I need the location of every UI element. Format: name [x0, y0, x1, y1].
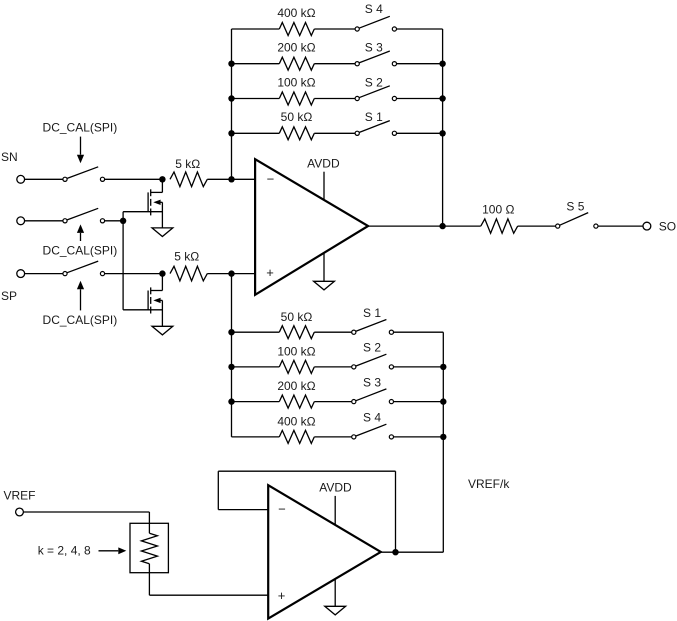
wire AVDD U2	[334, 496, 336, 525]
svg-text:S 1: S 1	[363, 306, 381, 320]
wire 5k to left bus	[207, 178, 231, 180]
switch S 2 bottom	[352, 365, 356, 369]
wire VREF to divider	[23, 511, 149, 513]
terminal SN	[17, 175, 25, 183]
wire gate bus vertical	[122, 212, 124, 310]
transistor Q1 drain lead	[161, 179, 163, 192]
wire ladder row S 2 left (bottom)	[232, 366, 280, 368]
resistor 100 ohm	[481, 219, 518, 233]
svg-text:DC_CAL(SPI): DC_CAL(SPI)	[43, 120, 118, 134]
resistor 5k lower	[170, 266, 207, 281]
svg-text:200 kΩ: 200 kΩ	[277, 41, 315, 55]
terminal middle (cal input)	[17, 217, 25, 225]
wire switch to right bus	[397, 98, 443, 100]
svg-text:S 5: S 5	[566, 200, 584, 214]
svg-text:S 2: S 2	[365, 75, 383, 89]
arrow k label	[99, 550, 119, 552]
switch S 1	[355, 131, 359, 135]
svg-text:50 kΩ: 50 kΩ	[281, 310, 313, 324]
node SN/drain junction	[159, 176, 165, 182]
wire U2 ground stem	[334, 579, 336, 607]
node bottom ladder left bus junction	[228, 364, 234, 370]
bottom ladder left bus wire	[231, 274, 233, 437]
wire ladder row S 3 left	[232, 63, 280, 65]
wire 5k to left bus	[207, 273, 231, 275]
wire SP switch to node	[105, 273, 163, 275]
svg-text:AVDD: AVDD	[319, 481, 352, 495]
switch DC_CAL SP	[63, 272, 67, 276]
wire op-amp output	[368, 225, 481, 227]
transistor Q2 channel	[150, 287, 152, 294]
top ladder right bus wire	[442, 29, 444, 226]
wire row to switch	[314, 366, 351, 368]
wire U2 feedback right vertical	[395, 471, 397, 552]
wire SN terminal to switch	[25, 178, 63, 180]
resistor 100 kohm bottom ladder	[279, 360, 314, 373]
resistor k zigzag	[148, 523, 150, 533]
arrow DC_CAL bottom	[80, 289, 82, 310]
wire SN switch to node	[105, 178, 163, 180]
wire row to switch	[314, 436, 351, 438]
wire ladder row S 1 left	[232, 132, 280, 134]
node: top ladder left bus junction	[228, 61, 234, 67]
svg-text:AVDD: AVDD	[307, 157, 340, 171]
arrow DC_CAL top	[80, 137, 82, 155]
svg-text:5 kΩ: 5 kΩ	[174, 250, 199, 264]
op-amp U2	[268, 485, 381, 618]
svg-text:SP: SP	[1, 289, 17, 303]
node bottom ladder left bus junction	[228, 398, 234, 404]
svg-text:−: −	[267, 172, 275, 187]
switch DC_CAL SN	[63, 177, 67, 181]
wire U2 feedback left vertical	[217, 471, 219, 509]
wire middle switch to gate node	[105, 220, 124, 222]
wire 100ohm to S5	[518, 225, 556, 227]
wire Q1 source down	[161, 202, 163, 228]
node: top ladder right bus junction	[439, 61, 445, 67]
wire bus to op-amp minus	[232, 178, 256, 180]
resistor 200 kohm bottom ladder	[279, 395, 314, 408]
svg-text:−: −	[278, 501, 286, 516]
wire switch to right bus	[397, 28, 443, 30]
wire switch to right bus	[394, 436, 444, 438]
wire row to switch	[314, 63, 355, 65]
svg-text:+: +	[266, 265, 274, 280]
transistor Q2 body arrow	[157, 299, 163, 301]
svg-text:SO: SO	[659, 219, 676, 233]
svg-text:400 kΩ: 400 kΩ	[277, 6, 315, 20]
node plus-input junction	[228, 270, 234, 276]
svg-text:400 kΩ: 400 kΩ	[277, 415, 315, 429]
node SP/drain junction	[159, 270, 165, 276]
wire ladder row S 2 left	[232, 98, 280, 100]
transistor Q1 channel	[150, 189, 152, 196]
wire row to switch	[314, 28, 355, 30]
wire switch to right bus	[397, 132, 443, 134]
node: top ladder right bus junction	[439, 95, 445, 101]
wire U2 feedback top	[218, 470, 395, 472]
svg-text:S 2: S 2	[363, 341, 381, 355]
node output/right-bus junction	[439, 223, 445, 229]
switch S 3 bottom	[352, 400, 356, 404]
resistor 400 kohm top ladder	[279, 23, 314, 36]
top ladder left bus wire	[231, 29, 233, 179]
svg-text:S 3: S 3	[365, 41, 383, 55]
svg-text:DC_CAL(SPI): DC_CAL(SPI)	[43, 244, 118, 258]
wire ladder row S 4 left	[232, 28, 280, 30]
wire ladder row S 1 left (bottom)	[232, 331, 280, 333]
svg-text:S 4: S 4	[365, 2, 383, 16]
transistor Q2 drain lead	[161, 274, 163, 291]
node U2 output junction	[392, 549, 398, 555]
switch S 1 bottom	[352, 330, 356, 334]
switch S 4 bottom	[352, 435, 356, 439]
svg-text:S 3: S 3	[363, 375, 381, 389]
ground Q1	[152, 228, 173, 237]
wire divider to op-amp plus	[149, 594, 268, 596]
svg-text:100 kΩ: 100 kΩ	[277, 75, 315, 89]
svg-text:S 1: S 1	[365, 110, 383, 124]
bottom ladder right bus wire	[442, 332, 444, 552]
resistor 100 kohm top ladder	[279, 92, 314, 105]
wire ladder row S 3 left (bottom)	[232, 401, 280, 403]
transistor Q1 body arrow	[157, 201, 163, 203]
terminal SP	[17, 270, 25, 278]
wire switch to right bus	[394, 331, 444, 333]
switch S 3	[355, 62, 359, 66]
svg-text:SN: SN	[1, 150, 18, 164]
node bottom ladder right bus junction	[440, 364, 446, 370]
wire switch to right bus	[397, 63, 443, 65]
ground U2	[325, 606, 346, 615]
wire S5 to SO	[598, 225, 643, 227]
node: top ladder right bus junction	[439, 130, 445, 136]
node bottom ladder right bus junction	[440, 434, 446, 440]
svg-text:VREF: VREF	[4, 489, 36, 503]
op-amp U1	[255, 159, 368, 295]
switch S 4	[355, 27, 359, 31]
wire row to switch	[314, 132, 355, 134]
wire bus to op-amp plus	[232, 273, 256, 275]
node bottom ladder right bus junction	[440, 398, 446, 404]
wire row to switch	[314, 98, 355, 100]
svg-text:100 Ω: 100 Ω	[482, 203, 514, 217]
svg-text:5 kΩ: 5 kΩ	[175, 157, 200, 171]
wire switch to right bus	[394, 366, 444, 368]
ground U1	[314, 281, 335, 290]
transistor Q2 gate plate	[147, 291, 149, 310]
transistor Q1 gate plate	[147, 192, 149, 211]
svg-text:+: +	[278, 588, 286, 603]
wire Q1 gate/source lead	[123, 211, 162, 213]
resistor 200 kohm top ladder	[279, 57, 314, 70]
wire middle terminal to switch	[25, 220, 63, 222]
wire row to switch	[314, 401, 351, 403]
resistor 400 kohm bottom ladder	[279, 430, 314, 443]
terminal SO	[643, 222, 651, 230]
wire SP terminal to switch	[25, 273, 63, 275]
switch DC_CAL middle	[63, 219, 67, 223]
wire U1 ground stem	[323, 253, 325, 281]
resistor 50 kohm top ladder	[279, 127, 314, 140]
svg-text:S 4: S 4	[363, 411, 381, 425]
node minus-input junction	[228, 176, 234, 182]
wire U2 output	[381, 551, 444, 553]
svg-text:DC_CAL(SPI): DC_CAL(SPI)	[43, 313, 118, 327]
wire switch to right bus	[394, 401, 444, 403]
resistor 5k upper	[170, 172, 207, 187]
wire Q2 gate/source lead	[123, 309, 162, 311]
wire Q2 source down	[161, 300, 163, 326]
wire U2 feedback minus	[218, 509, 268, 511]
resistor block k (box)	[130, 523, 168, 572]
node: top ladder left bus junction	[228, 130, 234, 136]
svg-text:200 kΩ: 200 kΩ	[277, 379, 315, 393]
switch S5	[556, 224, 560, 228]
arrow DC_CAL middle	[80, 233, 82, 241]
svg-text:k = 2, 4, 8: k = 2, 4, 8	[38, 543, 91, 557]
wire ladder row S 4 left (bottom)	[232, 436, 280, 438]
resistor 50 kohm bottom ladder	[279, 326, 314, 339]
node bottom ladder left bus junction	[228, 329, 234, 335]
wire row to switch	[314, 331, 351, 333]
svg-text:100 kΩ: 100 kΩ	[277, 345, 315, 359]
ground Q2	[152, 326, 173, 335]
svg-text:VREF/k: VREF/k	[468, 477, 510, 491]
switch S 2	[355, 96, 359, 100]
terminal VREF	[16, 508, 24, 516]
node gate bus junction	[120, 218, 126, 224]
svg-text:50 kΩ: 50 kΩ	[281, 110, 313, 124]
wire AVDD U1	[323, 172, 325, 200]
node: top ladder left bus junction	[228, 95, 234, 101]
